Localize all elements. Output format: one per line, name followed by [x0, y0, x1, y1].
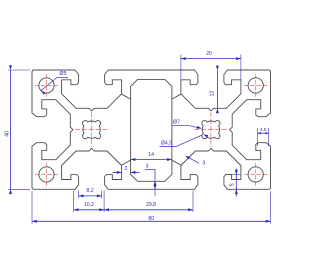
core hole rosette right module: [202, 121, 220, 139]
dimension 14 middle cavity: [131, 159, 172, 161]
svg-text:80: 80: [148, 216, 154, 222]
svg-text:10,2: 10,2: [84, 202, 94, 208]
middle cavity: [131, 79, 172, 181]
leader diameter 4,5 rosette lobe: [160, 146, 177, 148]
corner hole circle top-right: [248, 78, 263, 93]
core hole rosette left module: [83, 121, 101, 139]
corner hole circle bottom-right: [248, 167, 263, 182]
dimension 3 web leader right module: [186, 156, 199, 163]
leader diameter 5 corner hole: [41, 77, 57, 90]
svg-text:Ø5: Ø5: [60, 71, 67, 77]
svg-text:5: 5: [229, 183, 235, 186]
web merge line left module bottom slot to middle cavity: [122, 160, 131, 165]
centerlines corner hole: [244, 173, 267, 175]
svg-text:12: 12: [210, 91, 216, 97]
centerlines corner hole: [244, 84, 267, 86]
svg-text:40: 40: [5, 131, 11, 137]
svg-text:3: 3: [146, 164, 149, 170]
svg-text:3: 3: [202, 160, 205, 166]
dimension 10,2 bottom left slot: [74, 209, 104, 211]
svg-text:Ø7: Ø7: [173, 120, 180, 126]
leader diameter 7 rosette: [173, 125, 190, 127]
centerlines corner hole: [35, 84, 58, 86]
dimension 3 wall thickness: [113, 171, 122, 173]
web merge line right module top slot to middle cavity: [172, 94, 181, 99]
centerlines rosette: [194, 129, 227, 131]
dimension 8,2 bottom slot opening: [79, 195, 102, 197]
svg-text:4,5: 4,5: [260, 127, 267, 133]
corner hole circle top-left: [39, 78, 54, 93]
svg-text:29,8: 29,8: [146, 202, 156, 208]
dimension 12 slot depth: [216, 70, 218, 108]
centerlines rosette: [75, 129, 108, 131]
web merge line right module bottom slot to middle cavity: [172, 160, 181, 165]
centerlines corner hole: [35, 173, 58, 175]
dimension 4,5 right slot: [258, 132, 269, 134]
svg-text:Ø4,5: Ø4,5: [161, 141, 172, 147]
svg-text:3: 3: [124, 166, 127, 172]
dimension 40 vertical left: [10, 70, 12, 189]
dimension 80 bottom: [32, 220, 271, 222]
corner hole circle bottom-left: [39, 167, 54, 182]
dimension 20 top right slot: [181, 58, 241, 60]
dimension 3 bottom skin leader: [145, 168, 155, 170]
svg-text:20: 20: [206, 51, 212, 57]
profile outer outline with six T-slots: [32, 70, 271, 189]
svg-text:14: 14: [148, 152, 154, 158]
svg-text:8,2: 8,2: [86, 188, 93, 194]
web merge line left module top slot to middle cavity: [122, 94, 131, 99]
dimension 29,8 bottom middle: [104, 209, 193, 211]
dimension 5 lip height: [235, 169, 237, 197]
